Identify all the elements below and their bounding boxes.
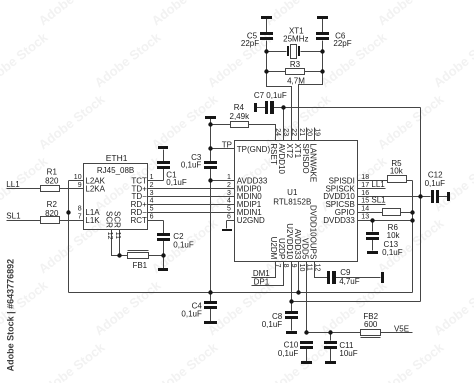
- svg-text:16: 16: [361, 190, 369, 197]
- svg-text:11: 11: [306, 264, 313, 271]
- svg-text:0,1uF: 0,1uF: [262, 320, 283, 329]
- svg-text:DVDD10OUPS: DVDD10OUPS: [309, 205, 318, 259]
- svg-text:TP(GND): TP(GND): [237, 145, 271, 154]
- svg-text:0,1uF: 0,1uF: [382, 248, 403, 257]
- svg-text:SCR: SCR: [105, 211, 114, 228]
- svg-text:AVDD10: AVDD10: [277, 143, 286, 174]
- svg-text:23: 23: [282, 128, 289, 136]
- svg-text:R4: R4: [234, 103, 245, 112]
- svg-text:6: 6: [227, 214, 231, 221]
- svg-text:RJ45_08B: RJ45_08B: [97, 166, 134, 175]
- svg-text:LANWAKE: LANWAKE: [309, 143, 318, 182]
- svg-text:LL1: LL1: [6, 180, 20, 189]
- svg-text:10k: 10k: [390, 167, 404, 176]
- svg-text:1: 1: [150, 174, 154, 181]
- svg-text:21: 21: [298, 128, 305, 136]
- svg-text:RTL8152B: RTL8152B: [273, 198, 311, 207]
- svg-text:0,1uF: 0,1uF: [173, 240, 194, 249]
- svg-text:VDD5: VDD5: [301, 238, 310, 260]
- svg-text:R1: R1: [47, 168, 58, 177]
- svg-text:RCT: RCT: [130, 216, 147, 225]
- svg-text:U2VDD10: U2VDD10: [285, 223, 294, 260]
- svg-text:XT1: XT1: [293, 143, 302, 158]
- svg-text:LL1: LL1: [371, 180, 385, 189]
- svg-text:DVDD33: DVDD33: [323, 216, 355, 225]
- svg-text:820: 820: [45, 209, 59, 218]
- svg-text:0,1uF: 0,1uF: [278, 349, 299, 358]
- svg-text:600: 600: [364, 320, 378, 329]
- svg-text:SL1: SL1: [6, 211, 21, 220]
- svg-text:4,7uF: 4,7uF: [339, 277, 360, 286]
- svg-text:18: 18: [361, 174, 369, 181]
- svg-text:4,7M: 4,7M: [287, 76, 305, 85]
- svg-text:R2: R2: [47, 200, 58, 209]
- svg-text:TP: TP: [222, 141, 232, 150]
- svg-text:10: 10: [298, 264, 305, 272]
- svg-text:4: 4: [227, 198, 231, 205]
- svg-text:5: 5: [150, 206, 154, 213]
- svg-text:1: 1: [227, 174, 231, 181]
- svg-text:22pF: 22pF: [333, 39, 351, 48]
- svg-text:11: 11: [114, 232, 121, 239]
- svg-text:7: 7: [78, 214, 82, 221]
- svg-text:3: 3: [150, 190, 154, 197]
- svg-text:DP1: DP1: [254, 277, 270, 286]
- svg-text:C9: C9: [340, 268, 351, 277]
- svg-text:10k: 10k: [387, 231, 401, 240]
- svg-text:8: 8: [78, 206, 82, 213]
- svg-text:3: 3: [227, 190, 231, 197]
- svg-text:XT2: XT2: [285, 143, 294, 158]
- svg-text:ETH1: ETH1: [106, 153, 128, 163]
- svg-text:10: 10: [74, 174, 82, 181]
- svg-text:2,49k: 2,49k: [230, 112, 251, 121]
- svg-text:0,1uF: 0,1uF: [181, 161, 202, 170]
- svg-text:RSET: RSET: [269, 143, 278, 164]
- svg-text:U2DP: U2DP: [277, 238, 286, 259]
- svg-text:22: 22: [290, 128, 297, 136]
- svg-text:SCR: SCR: [113, 211, 122, 228]
- svg-text:SPISDO: SPISDO: [301, 143, 310, 173]
- svg-text:10uF: 10uF: [339, 349, 357, 358]
- svg-text:R3: R3: [290, 60, 301, 69]
- svg-text:8: 8: [282, 264, 289, 268]
- svg-text:V5E: V5E: [394, 324, 409, 333]
- svg-text:C7 0,1uF: C7 0,1uF: [254, 91, 287, 100]
- svg-text:U1: U1: [287, 188, 298, 197]
- svg-text:0,1uF: 0,1uF: [166, 178, 187, 187]
- svg-text:2: 2: [150, 182, 154, 189]
- svg-text:L1K: L1K: [85, 216, 100, 225]
- svg-text:6: 6: [150, 214, 154, 221]
- svg-text:12: 12: [106, 232, 113, 240]
- svg-text:9: 9: [290, 264, 297, 268]
- svg-text:AVDD33: AVDD33: [293, 229, 302, 260]
- svg-text:FB1: FB1: [132, 261, 147, 270]
- svg-text:7: 7: [274, 264, 281, 268]
- svg-text:0,1uF: 0,1uF: [181, 310, 202, 319]
- svg-text:12: 12: [314, 264, 321, 272]
- svg-text:L2KA: L2KA: [85, 184, 105, 193]
- svg-text:20: 20: [306, 128, 313, 136]
- svg-text:SL1: SL1: [371, 196, 386, 205]
- svg-text:9: 9: [78, 182, 82, 189]
- svg-text:Adobe Stock | #643776892: Adobe Stock | #643776892: [6, 259, 16, 372]
- svg-text:5: 5: [227, 206, 231, 213]
- svg-text:0,1uF: 0,1uF: [425, 179, 446, 188]
- svg-text:24: 24: [274, 128, 281, 136]
- svg-text:2: 2: [227, 182, 231, 189]
- svg-text:U2DM: U2DM: [269, 237, 278, 260]
- svg-text:13: 13: [361, 214, 369, 221]
- svg-text:820: 820: [45, 177, 59, 186]
- svg-text:19: 19: [314, 128, 321, 136]
- svg-text:15: 15: [361, 198, 369, 205]
- svg-text:17: 17: [361, 182, 369, 189]
- svg-text:4: 4: [150, 198, 154, 205]
- svg-text:U2GND: U2GND: [237, 216, 265, 225]
- svg-text:25MHz: 25MHz: [283, 34, 308, 43]
- svg-text:14: 14: [361, 206, 369, 213]
- svg-text:22pF: 22pF: [241, 39, 259, 48]
